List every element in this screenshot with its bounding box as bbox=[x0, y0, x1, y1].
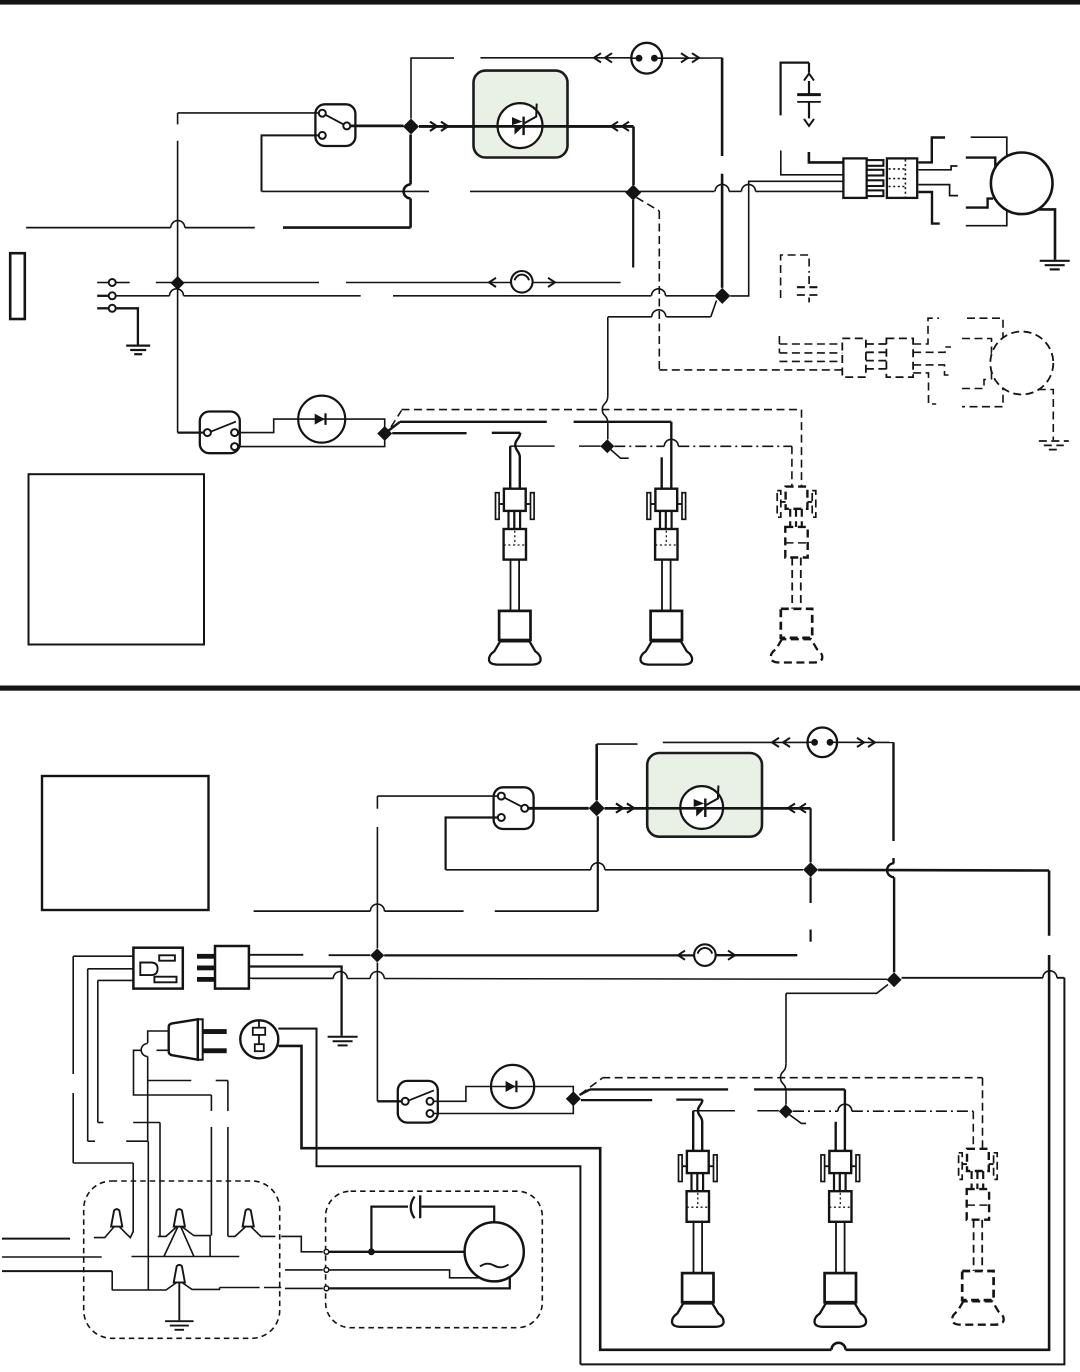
CDI circle U2 bbox=[680, 786, 723, 829]
plug P2 wire 2 bbox=[157, 1049, 169, 1051]
wire coil 2 left drop bbox=[661, 457, 663, 488]
dashed lead 1 bbox=[913, 318, 939, 344]
wire x=786 drop bbox=[785, 993, 787, 1063]
wire A3 to stator riser bbox=[730, 181, 844, 296]
dashed connector left half bbox=[842, 338, 866, 377]
generator main wire bbox=[329, 1251, 465, 1253]
wire to kill switch S4 bbox=[377, 1100, 404, 1102]
wire through CDI U1 bbox=[419, 125, 634, 128]
T5 long V legs bbox=[164, 1227, 178, 1257]
junction dot bbox=[368, 1248, 375, 1255]
wire y=58 to connector bbox=[410, 57, 454, 59]
wire diode to junction bbox=[345, 419, 385, 427]
terminal lug T6 bbox=[243, 1209, 254, 1226]
wire through CDI U2 bbox=[605, 807, 811, 810]
ground symbol G4 bbox=[328, 1036, 358, 1038]
wire thin y=1110.8 bbox=[693, 1110, 735, 1112]
riser x=227.9 bbox=[227, 1081, 229, 1112]
flywheel magneto M1 bbox=[991, 153, 1053, 215]
wire vertical x=377.4 bbox=[376, 796, 378, 809]
terminal lug T5 bbox=[174, 1209, 185, 1226]
condenser C1 bbox=[808, 81, 810, 95]
arrows to CDI 2 bbox=[616, 804, 623, 813]
dashed wire to coil 6 bbox=[580, 1078, 602, 1094]
T5 short whiskers bbox=[158, 1227, 177, 1237]
ignition coil and spark plug 4 bbox=[687, 1151, 709, 1173]
wire thick to stator connector bbox=[809, 152, 844, 162]
stop switch S1 bbox=[315, 104, 355, 146]
arrows out of connector (right) bbox=[681, 53, 688, 62]
junction diamond B1 bbox=[589, 800, 605, 816]
outer ground loop right bbox=[580, 978, 1064, 1365]
connector arrow up bbox=[804, 74, 814, 81]
left riser 3 bbox=[97, 980, 99, 1122]
terminal T3 bbox=[109, 305, 116, 312]
wire to coil 4 (y=1100) bbox=[581, 1099, 652, 1101]
wire junction A1 down bbox=[409, 135, 412, 185]
divider bar between diagrams bbox=[0, 686, 1080, 691]
left riser 2 bbox=[87, 969, 89, 1141]
wire T3 to ground bbox=[115, 308, 138, 344]
bus inside box y=1256.5 bbox=[132, 1256, 240, 1258]
wire control box to generator 2 bbox=[285, 1269, 323, 1271]
riser into box x=160 bbox=[159, 1123, 161, 1237]
dashed riser small bbox=[778, 336, 780, 353]
wire S1 bottom contact loop bbox=[262, 135, 320, 191]
kill switch S4 bbox=[398, 1081, 438, 1123]
plug wire neutral to ground bbox=[249, 967, 342, 1036]
ground symbol G2 bbox=[1040, 260, 1070, 262]
lead 4 stub bbox=[919, 192, 940, 224]
legend strip rectangle bbox=[10, 253, 25, 319]
wire coil 1 left drop bbox=[509, 446, 511, 489]
arrow charge left bbox=[678, 951, 685, 960]
plug wire hot bbox=[249, 954, 303, 956]
wire B3 to kill riser bbox=[786, 985, 888, 994]
wire y=316.8 bbox=[666, 316, 711, 318]
wire CDI out down bbox=[632, 126, 635, 185]
arrow on lighting line right bbox=[548, 278, 555, 287]
lead 2 to flywheel bbox=[919, 166, 958, 170]
R2 wire bottom bbox=[278, 1045, 301, 1047]
dashed connector pins bbox=[866, 343, 887, 345]
kill switch blade bbox=[610, 449, 629, 459]
wire S3 bottom loop bbox=[446, 818, 499, 870]
wire y=227.6 bus thick part bbox=[283, 226, 411, 229]
dashed ground wire bbox=[1038, 390, 1054, 441]
capacitor wires bbox=[371, 1207, 408, 1252]
wire through CDI bbox=[419, 125, 634, 128]
T7 left wire bbox=[112, 1282, 177, 1290]
generator box dashed outline bbox=[326, 1191, 543, 1328]
wire S2 to diode bbox=[237, 419, 298, 433]
arrow on lighting line left bbox=[489, 278, 496, 287]
dashed connector right half bbox=[886, 338, 913, 377]
dashed condenser C2 bbox=[797, 286, 821, 288]
wire vertical x=722.1 bbox=[721, 58, 724, 156]
left riser 1 bbox=[72, 956, 74, 1074]
wire y=870 thick to right bbox=[818, 869, 1049, 872]
dash-dot wire to coil 3 left bbox=[614, 445, 664, 447]
legend box (bottom diagram) bbox=[42, 776, 209, 910]
wire vertical x=177.6 upper bbox=[177, 113, 179, 125]
wire to coil 2 (y=421.8) bbox=[388, 422, 400, 431]
terminal lug T7 bbox=[174, 1265, 185, 1283]
wire through CDI 2 bbox=[605, 807, 811, 810]
junction diamond B4 bbox=[370, 948, 384, 962]
arrows to CDI bbox=[430, 122, 437, 131]
SCR symbol U2 bbox=[694, 799, 705, 807]
wire y=869.8 bus bbox=[446, 869, 591, 871]
dashed ground symbol G3 bbox=[1039, 440, 1069, 442]
wire to kill switch S2 bbox=[178, 431, 207, 433]
wire thin y=446.1 bbox=[510, 445, 555, 447]
lead 3 to flywheel bbox=[919, 185, 959, 196]
terminal T2 bbox=[109, 292, 116, 299]
dashed coil6 left drop bbox=[972, 1111, 974, 1149]
dashed flywheel M2 bbox=[990, 332, 1053, 395]
wire S2 lower to junction bbox=[237, 440, 384, 447]
control box left stubs bbox=[2, 1238, 70, 1240]
ignition coil and spark plug 5 bbox=[829, 1151, 851, 1173]
two-pin connector CN2 bbox=[808, 728, 838, 758]
stop switch S3 bbox=[494, 787, 534, 829]
diode D2 bbox=[491, 1065, 534, 1108]
legend box (top diagram) bbox=[29, 474, 205, 644]
riser into box x=133.2 bbox=[132, 1163, 134, 1233]
wire y=282.5 lighting line bbox=[156, 282, 319, 284]
wire coil 4 left drop bbox=[692, 1111, 694, 1151]
plug P2 wire 1 bbox=[148, 1031, 169, 1043]
wire coil 4 right drop with jog bbox=[698, 1100, 703, 1151]
SCR symbol U1 bbox=[512, 117, 523, 125]
junction diamond A4 bbox=[171, 276, 185, 290]
wire to coil 5 (y=1089.4) bbox=[580, 1089, 591, 1095]
generator wire 2 bbox=[329, 1270, 478, 1278]
CDI circle U1 bbox=[498, 103, 543, 148]
T4 left wire bbox=[94, 1227, 114, 1238]
receptacle wires left bbox=[73, 955, 133, 957]
wire control box to generator 3 bbox=[285, 1287, 323, 1289]
arrows out of connector 2 bbox=[857, 738, 864, 747]
wire S3 top contact left bbox=[377, 795, 498, 797]
junction diamond A3 bbox=[714, 288, 730, 304]
kill junction diamond B7 bbox=[779, 1104, 793, 1118]
wire coil 5 left drop bbox=[835, 1122, 837, 1151]
wire CDI2 out down bbox=[809, 808, 811, 862]
T6 right wire bbox=[251, 1227, 276, 1237]
connector arrow down bbox=[804, 119, 814, 126]
dashed wires to connector bbox=[779, 343, 842, 345]
wire S1 top contact to left bbox=[178, 112, 320, 114]
dashed coil3 left drop bbox=[791, 446, 793, 486]
riser x=211.4 bbox=[210, 1095, 212, 1111]
terminal lug T4 bbox=[111, 1209, 122, 1226]
wire vertical x=893.5 bbox=[892, 742, 894, 841]
kill switch blade 2 bbox=[788, 1114, 806, 1124]
ignition coil and spark plug 3 (optional) bbox=[786, 487, 808, 509]
inner ground loop bbox=[1048, 871, 1051, 936]
wire connector to right corner bbox=[661, 57, 723, 59]
terminal T1 bbox=[109, 279, 116, 286]
bullet connector B5 bbox=[694, 944, 716, 966]
generator terminal circles bbox=[324, 1249, 329, 1254]
wire x=597.8 riser bbox=[597, 816, 599, 911]
wire stub below A2 bbox=[632, 200, 634, 268]
ignition coil and spark plug 2 bbox=[655, 489, 677, 511]
plug wire third bbox=[249, 977, 333, 979]
ignition coil and spark plug 6 (optional) bbox=[967, 1149, 989, 1171]
AC receptacle R1 bbox=[133, 948, 182, 989]
wire down from A3 loop bbox=[711, 301, 717, 317]
wire y=744 to connector 2 bbox=[597, 743, 638, 745]
dashed wire to coil 3 bbox=[391, 411, 402, 428]
two-pin connector CN1 bbox=[631, 43, 662, 74]
connector pins bbox=[867, 160, 884, 166]
two-prong plug P2 bbox=[169, 1019, 198, 1059]
dash-dot wire to coil 6 left bbox=[793, 1110, 838, 1112]
CDI unit U1 (green module) bbox=[474, 71, 568, 158]
wire y=978.5 bbox=[252, 978, 333, 980]
dashed condenser bracket bbox=[781, 255, 810, 298]
junction diamond A1 bbox=[403, 119, 419, 135]
junction diamond A5 bbox=[377, 426, 392, 441]
wire coil 2 right drop bbox=[670, 422, 672, 489]
ground symbol G1 bbox=[126, 345, 150, 347]
junction diamond B3 bbox=[887, 972, 902, 987]
lead 1 to flywheel bbox=[919, 138, 946, 163]
wire S3 to CDI thick bbox=[528, 807, 589, 810]
T7 ground stem bbox=[178, 1282, 180, 1320]
ignition coil and spark plug 1 bbox=[504, 489, 526, 511]
junction diamond B2 bbox=[803, 862, 818, 877]
kill switch S2 bbox=[200, 412, 240, 454]
control box dashed outline bbox=[84, 1181, 280, 1338]
outer ground loop left bbox=[279, 1029, 581, 1365]
wire y=227.6 bus thin part bbox=[185, 227, 255, 229]
riser into box x=148.3 bbox=[147, 1141, 149, 1290]
wire connector2 to corner bbox=[836, 741, 894, 743]
wire coil 5 right drop bbox=[844, 1089, 846, 1151]
junction diamond B6 bbox=[566, 1091, 581, 1106]
T6 left wire bbox=[228, 1227, 246, 1237]
round receptacle R2 bbox=[240, 1020, 278, 1058]
bullet connector B1 bbox=[511, 271, 533, 293]
wire B1 up bbox=[595, 744, 598, 800]
T4 right wire bbox=[119, 1227, 133, 1238]
wire y=955.4 charge line bbox=[384, 954, 694, 956]
junction diamond A2 bbox=[625, 185, 641, 201]
wire y=191.4 bus bbox=[262, 190, 430, 192]
arrows into connector 2 bbox=[772, 738, 779, 747]
wire to coil 1 (y=432.8) bbox=[392, 432, 466, 434]
wire y=911.1 bus bbox=[254, 910, 371, 912]
dashed riser from A2 bbox=[637, 198, 660, 212]
T7 right wire bbox=[182, 1282, 220, 1289]
arrows out of CDI bbox=[611, 122, 618, 131]
wire control box to generator 1 bbox=[281, 1236, 323, 1251]
diode D1 bbox=[298, 396, 345, 443]
wire B3 to outer loop bbox=[902, 977, 1043, 979]
top page border bar bbox=[0, 0, 1080, 5]
wire diode2 to junction bbox=[534, 1087, 573, 1092]
arrows into connector (left) bbox=[594, 53, 601, 62]
ground symbol G5 bbox=[165, 1320, 194, 1322]
wire stub below B2 bbox=[809, 877, 811, 903]
stator connector right half bbox=[887, 158, 917, 198]
CDI unit U2 (green module) bbox=[647, 753, 762, 837]
wire magneto to ground bbox=[1038, 209, 1055, 259]
branch row y=1080.5 bbox=[148, 1080, 192, 1082]
wire coil 1 right drop with jog bbox=[515, 433, 520, 489]
wire S1 to junction (thick) bbox=[350, 125, 404, 128]
power plug P1 bbox=[215, 946, 249, 989]
wire S4 lower to junction bbox=[433, 1106, 574, 1114]
alternator A1 bbox=[465, 1222, 524, 1281]
stator connector left half bbox=[843, 158, 866, 198]
arrow charge right bbox=[728, 951, 735, 960]
wire junction A1 up bbox=[410, 58, 412, 118]
R2 wire top bbox=[278, 1028, 316, 1030]
arrows out of CDI 2 bbox=[788, 804, 795, 813]
wire y=295.8 charge line bbox=[115, 295, 170, 297]
wire x=607.8 drop bbox=[607, 317, 609, 396]
dashed lead 2 bbox=[913, 347, 951, 352]
condenser bracket bbox=[781, 63, 809, 116]
generator wire 3 bbox=[329, 1278, 510, 1289]
kill junction diamond A6 bbox=[600, 439, 614, 453]
wire condenser stub to connector bbox=[781, 151, 844, 175]
wire S4 to diode 2 bbox=[433, 1087, 491, 1102]
capacitor C3 bbox=[411, 1197, 415, 1219]
dashed lead 4 stub bbox=[913, 373, 936, 404]
dashed lead 3 bbox=[913, 365, 952, 375]
